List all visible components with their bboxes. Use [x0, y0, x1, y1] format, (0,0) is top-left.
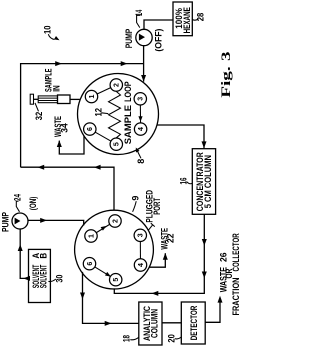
svg-text:PORT: PORT	[152, 197, 162, 214]
valve U9 rotary valve body	[75, 210, 154, 289]
wire arrow recycle left 2	[37, 165, 44, 170]
svg-text:HEXANE: HEXANE	[182, 7, 192, 33]
svg-text:10: 10	[42, 26, 52, 35]
valve 8 port 1	[85, 90, 97, 102]
valve 8 port 4	[134, 123, 146, 135]
valve 9 port 6	[83, 258, 95, 270]
svg-text:2: 2	[114, 83, 121, 87]
svg-text:28: 28	[196, 13, 206, 22]
svg-text:LOOP: LOOP	[123, 81, 133, 102]
svg-text:1: 1	[88, 234, 95, 238]
valve 8 line port1-port2	[92, 85, 117, 97]
syringe 32 plunger stem	[34, 98, 39, 100]
svg-text:PUMP: PUMP	[124, 29, 134, 49]
reservoir 28 100% hexane box	[173, 2, 192, 36]
valve U8 rotary valve body	[78, 74, 159, 155]
wire solvent reservoir to pump 24	[20, 229, 28, 278]
svg-text:(ON): (ON)	[28, 197, 38, 211]
wire arrow on top recycle line (right) 1	[55, 61, 62, 66]
wire arrow left into valve 9 bottom	[152, 291, 159, 296]
leader for label 24	[16, 201, 19, 212]
pump P14 triangle	[139, 34, 145, 41]
svg-text:5: 5	[114, 142, 121, 146]
wire detector to waste 26 / fraction collector	[205, 298, 220, 323]
valve 8 port 2	[110, 79, 122, 91]
leader for label 16	[187, 182, 193, 184]
valve 9 arrow port6 to port5	[105, 272, 111, 277]
valve 9 port 5	[110, 274, 122, 286]
svg-text:B: B	[38, 252, 48, 258]
svg-text:DETECTOR: DETECTOR	[189, 305, 199, 340]
wire pump 14 up to hexane reservoir	[144, 20, 173, 29]
wire arrow pump 24 out	[40, 218, 47, 223]
svg-text:6: 6	[87, 127, 94, 131]
detector 20 box	[181, 302, 205, 344]
svg-text:SAMPLE: SAMPLE	[123, 105, 133, 144]
wire arrow toward corner (left)	[23, 276, 30, 281]
svg-text:COLLECTOR: COLLECTOR	[231, 233, 240, 272]
valve 8 port 3	[134, 93, 146, 105]
leader for PLUGGED PORT	[148, 225, 153, 231]
wire arrow up to waste 26	[218, 296, 223, 303]
analytic column 18 box	[139, 302, 162, 345]
reservoir 30 solvent box	[29, 249, 51, 302]
wire concentrator down to valve 9 bottom	[114, 214, 204, 293]
syringe 32 needle	[70, 98, 80, 100]
svg-text:SOLVENT: SOLVENT	[38, 264, 48, 288]
svg-text:18: 18	[122, 335, 132, 342]
svg-text:32: 32	[34, 112, 44, 121]
valve 9 line port3-port4	[139, 235, 141, 265]
wire arrow into valve 8	[141, 75, 146, 82]
pump P24 body (on)	[12, 213, 28, 229]
leader for label 14	[137, 15, 141, 27]
valve 9 port 4	[134, 259, 146, 271]
svg-text:22: 22	[166, 234, 176, 244]
svg-text:24: 24	[12, 194, 22, 201]
svg-text:FRACTION: FRACTION	[231, 278, 240, 316]
wire valve 9 to waste 22	[149, 253, 165, 267]
syringe 32 plunger T-bar	[30, 94, 33, 104]
leader for label 10	[48, 34, 54, 39]
wire arrow up to waste 22	[163, 253, 168, 260]
pump P24 triangle	[15, 218, 21, 225]
valve 8 arrow port3 to port4	[138, 116, 142, 122]
svg-text:5 CM COLUMN: 5 CM COLUMN	[203, 155, 213, 208]
valve 9 port 1	[85, 230, 97, 242]
svg-text:4: 4	[138, 263, 145, 267]
leader for label 8	[137, 150, 141, 158]
leader for label 18	[130, 337, 139, 340]
svg-text:6: 6	[87, 262, 94, 266]
svg-text:12: 12	[93, 108, 103, 117]
wire arrow into concentrator	[202, 141, 207, 148]
leader for label 30	[48, 279, 56, 282]
wire arrow up into pump 24	[18, 244, 23, 251]
svg-text:14: 14	[134, 10, 144, 16]
wire left border recycle (node A to node B)	[21, 64, 144, 168]
valve 8 port 5	[110, 138, 122, 150]
wire arrow right to analytic column	[105, 321, 112, 326]
svg-text:IN: IN	[52, 85, 62, 92]
valve 9 port 3	[134, 229, 146, 241]
leader for label 12	[102, 112, 109, 115]
syringe 32 barrel	[58, 95, 71, 104]
wire analytic column to detector	[162, 322, 181, 324]
svg-text:16: 16	[178, 178, 188, 185]
leader for label 32	[35, 103, 39, 111]
svg-text:3: 3	[219, 52, 233, 62]
svg-text:3: 3	[138, 233, 145, 237]
valve 9 arrow port1 to port2	[101, 226, 107, 231]
wire pump 24 to valve 9 port 1	[28, 220, 83, 225]
wire arrow down concentrator 1	[202, 239, 207, 246]
valve 9 port 2	[109, 215, 121, 227]
valve 9 line port1-port2	[91, 221, 115, 236]
valve 8 line port6-port5	[90, 129, 117, 144]
svg-text:8: 8	[136, 159, 146, 164]
wire valve 8 port 4 to concentrator column	[157, 125, 205, 148]
svg-text:26: 26	[219, 253, 229, 263]
sample loop coil 12 (zigzag) between port2 and port5	[109, 92, 121, 138]
svg-text:30: 30	[54, 275, 64, 283]
valve 9 line port6-port5	[90, 264, 116, 280]
wire waste 34 from valve 8	[59, 136, 84, 154]
svg-text:1: 1	[89, 95, 96, 99]
leader for label 20	[175, 337, 182, 339]
valve 8 line port3-port4	[139, 99, 141, 129]
syringe 32 plunger rod	[38, 96, 57, 103]
svg-text:34: 34	[60, 123, 70, 133]
pump P14 body (off)	[136, 29, 152, 45]
wire arrow down on port 6 line	[80, 293, 85, 300]
svg-text:2: 2	[112, 219, 119, 223]
wire arrow recycle left 1	[94, 165, 101, 170]
wire arrow up to waste 34	[57, 140, 62, 147]
svg-text:(OFF): (OFF)	[153, 29, 163, 52]
wire pump 14 down into valve 8 port 3	[143, 46, 145, 82]
wire arrow down concentrator 2	[202, 272, 207, 279]
svg-text:Fig.: Fig.	[219, 66, 233, 98]
wire valve 9 port 6 to analytic column	[83, 272, 139, 324]
valve 8 port 6	[84, 123, 96, 135]
svg-text:3: 3	[138, 97, 145, 101]
leader for label 28	[192, 19, 198, 20]
svg-text:20: 20	[167, 334, 177, 342]
svg-text:COLUMN: COLUMN	[150, 309, 160, 338]
svg-text:4: 4	[138, 127, 145, 131]
leader for label 9	[133, 201, 137, 212]
svg-text:9: 9	[131, 196, 141, 201]
wire arrow on top recycle line (right) 2	[121, 61, 128, 66]
concentrator column 16 box	[192, 149, 215, 215]
wire recycle from valve 9 port 2 up and left	[21, 167, 114, 210]
svg-text:5: 5	[113, 278, 120, 282]
svg-text:PUMP: PUMP	[0, 212, 10, 232]
